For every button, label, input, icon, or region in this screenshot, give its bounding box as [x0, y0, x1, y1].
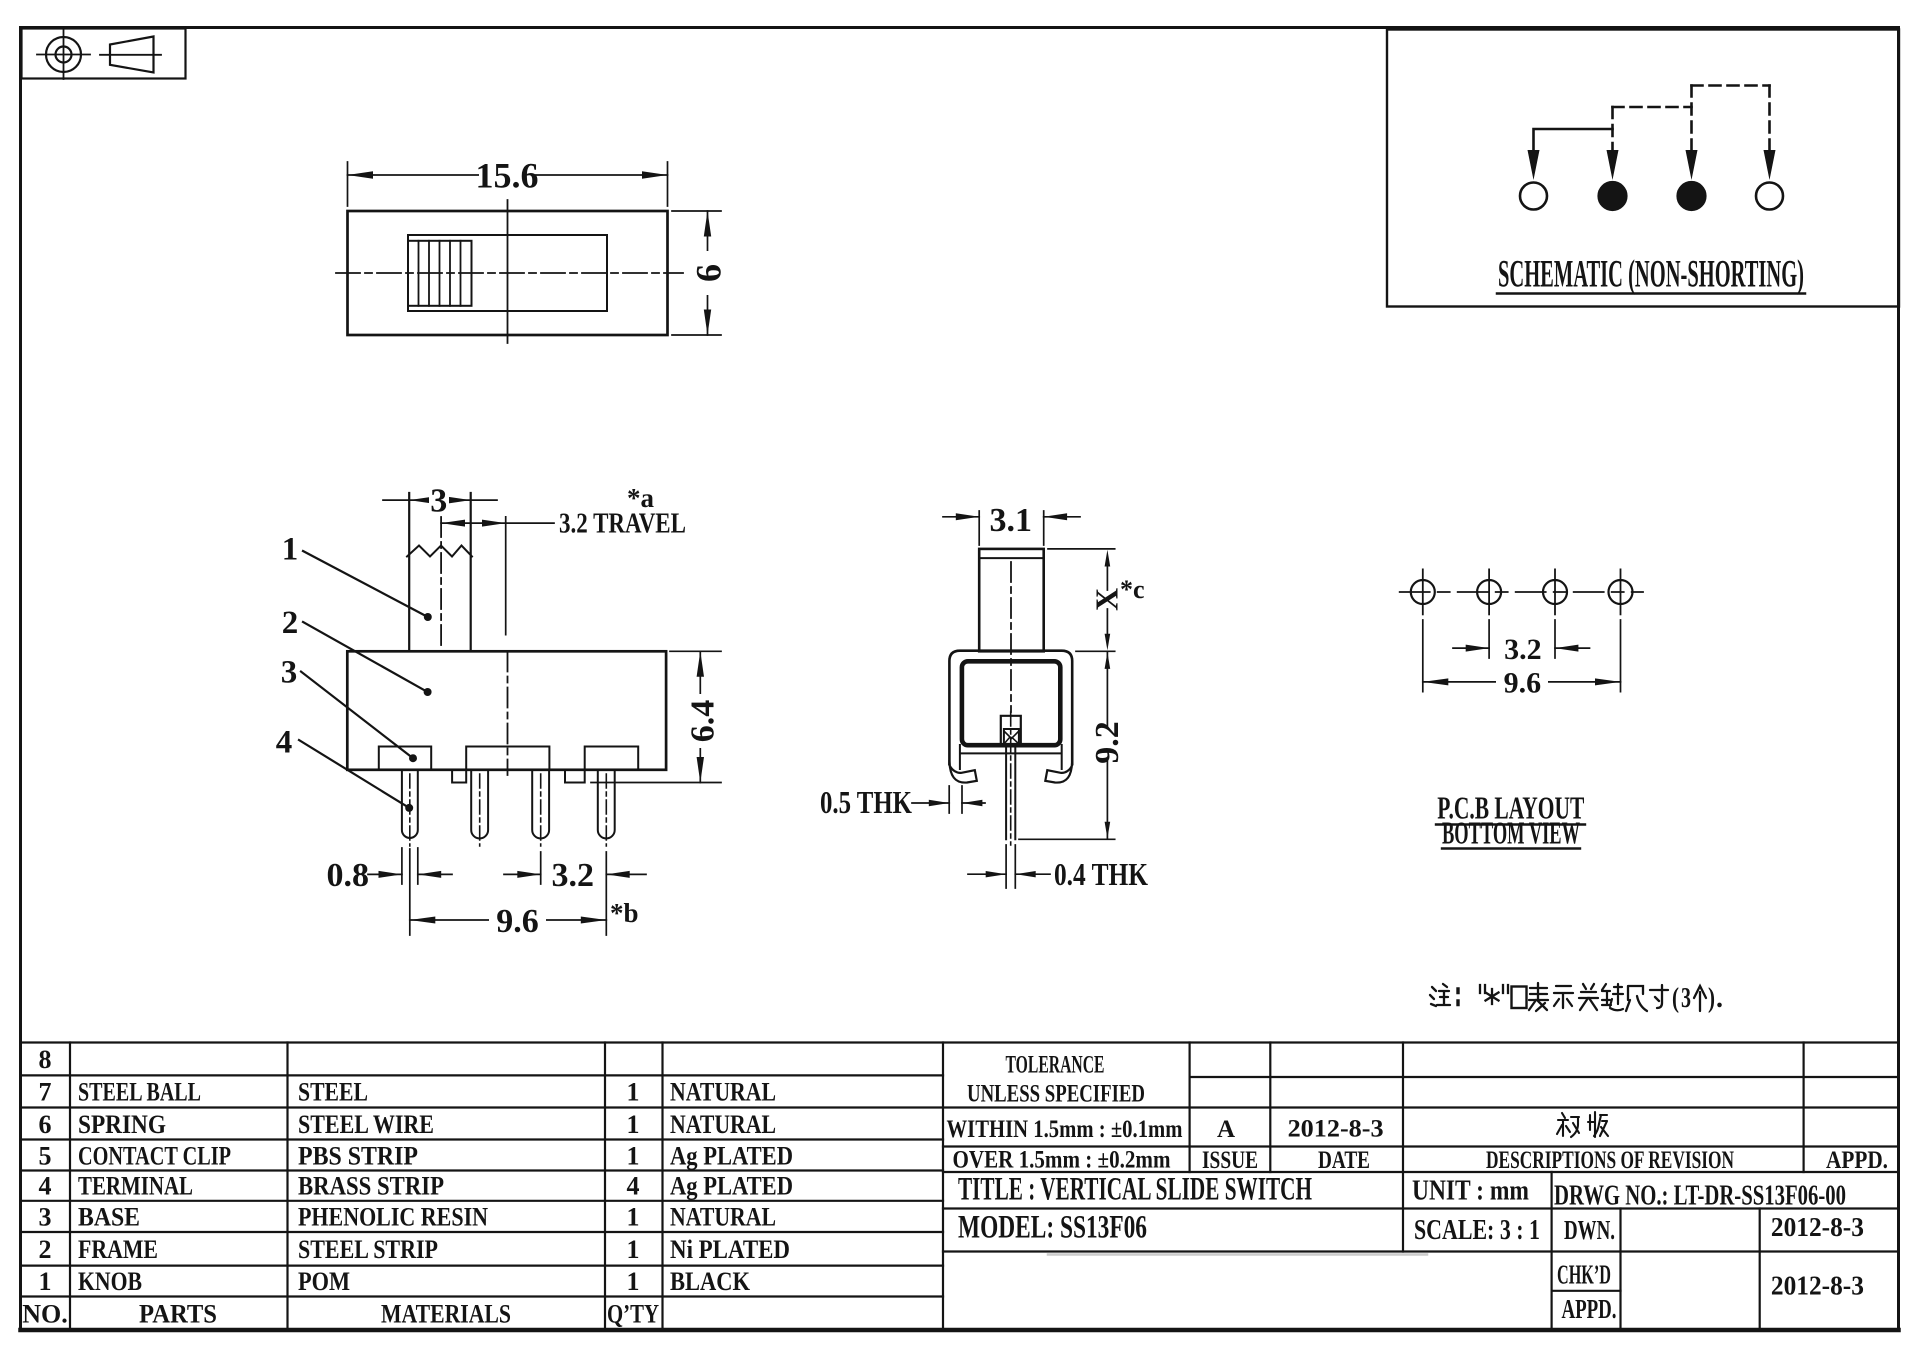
- schematic: arrow onto pin4: [1764, 150, 1776, 180]
- front view: knob stem center line: [440, 517, 442, 648]
- front view: body center line: [507, 652, 509, 776]
- svg-text:PARTS: PARTS: [139, 1300, 217, 1329]
- svg-text:STEEL WIRE: STEEL WIRE: [298, 1110, 434, 1139]
- svg-text:Ag PLATED: Ag PLATED: [670, 1172, 793, 1201]
- dimension 3 (knob width): [383, 483, 497, 520]
- svg-text:DESCRIPTIONS OF REVISION: DESCRIPTIONS OF REVISION: [1486, 1147, 1734, 1174]
- svg-text:0.5 THK: 0.5 THK: [820, 784, 912, 820]
- svg-text:8: 8: [39, 1045, 52, 1074]
- svg-text:NO.: NO.: [22, 1300, 68, 1329]
- svg-text:Ag PLATED: Ag PLATED: [670, 1142, 793, 1171]
- note: asterisk: [1486, 989, 1499, 1004]
- svg-text:2012-8-3: 2012-8-3: [1771, 1212, 1864, 1242]
- side view: pin section with hatch: [1004, 729, 1019, 746]
- note: 寸: [1650, 985, 1668, 1008]
- dimension 0.4 THK (pin thickness): [968, 845, 1148, 892]
- svg-text:1: 1: [627, 1203, 640, 1232]
- top view: vertical center line: [507, 200, 509, 343]
- leader 2 (frame): [282, 605, 432, 696]
- dimension 3.1 (stem depth): [943, 502, 1080, 545]
- svg-text:APPD.: APPD.: [1562, 1294, 1617, 1324]
- dimension 15.6 (top view width): [348, 156, 668, 207]
- pcb: hole 1: [1411, 569, 1435, 614]
- note: colon: [1456, 989, 1459, 1005]
- schematic box: [1387, 30, 1899, 307]
- svg-text:A: A: [1217, 1116, 1235, 1143]
- schematic: dashed wire pin2 vertical: [1611, 107, 1614, 151]
- note: 关: [1579, 984, 1598, 1010]
- schematic caption: [1497, 253, 1805, 296]
- svg-text:0.8: 0.8: [327, 857, 370, 894]
- schematic: dashed wire pin2-pin3 horizontal: [1613, 106, 1692, 109]
- svg-text:OVER 1.5mm : ±0.2mm: OVER 1.5mm : ±0.2mm: [953, 1147, 1171, 1174]
- svg-text:*c: *c: [1120, 575, 1145, 604]
- svg-text:9.6: 9.6: [1504, 667, 1542, 700]
- svg-text:2: 2: [282, 605, 299, 641]
- top view: knob slot opening: [408, 235, 607, 311]
- side view: frame bottom hook right: [1045, 760, 1072, 783]
- svg-text:6.4: 6.4: [685, 700, 722, 743]
- svg-text:3.2: 3.2: [552, 857, 595, 894]
- front view: base tab 2: [466, 747, 549, 770]
- schematic: dashed wire pin3-pin4 horizontal: [1692, 84, 1770, 87]
- leader 4 (terminal): [276, 725, 413, 812]
- svg-text:SCHEMATIC (NON-SHORTING): SCHEMATIC (NON-SHORTING): [1498, 253, 1804, 296]
- svg-text:2: 2: [39, 1235, 52, 1264]
- schematic: arrow onto pin3: [1686, 150, 1698, 180]
- svg-text:9.2: 9.2: [1089, 721, 1126, 764]
- front view: pin 4 center line: [605, 774, 607, 846]
- top view: knob with serrations: [408, 241, 472, 306]
- top view: horizontal center line: [336, 272, 683, 274]
- svg-text:WITHIN 1.5mm : ±0.1mm: WITHIN 1.5mm : ±0.1mm: [947, 1116, 1183, 1143]
- svg-text:UNLESS SPECIFIED: UNLESS SPECIFIED: [967, 1081, 1145, 1108]
- svg-text:2012-8-3: 2012-8-3: [1288, 1116, 1384, 1143]
- svg-text:POM: POM: [298, 1267, 350, 1296]
- svg-text:1: 1: [627, 1235, 640, 1264]
- svg-text:1: 1: [627, 1142, 640, 1171]
- side view: knob stem: [979, 549, 1043, 651]
- revision text: 版: [1588, 1112, 1608, 1137]
- table: horizontal rules: [21, 1043, 1899, 1331]
- front view: base tab 3: [585, 747, 639, 770]
- svg-text:1: 1: [39, 1267, 52, 1296]
- svg-text:STEEL STRIP: STEEL STRIP: [298, 1235, 438, 1264]
- svg-text:DATE: DATE: [1318, 1147, 1370, 1174]
- front view: pin 2 center line: [479, 774, 481, 846]
- front view: bottom standoff notch 2: [565, 770, 585, 783]
- schematic: solid wire from pin1 to pin2: [1534, 129, 1613, 151]
- side view: frame bottom hook left: [949, 760, 976, 783]
- schematic: dashed wire pin3 vertical: [1690, 86, 1693, 152]
- schematic: terminal 2 (filled): [1599, 182, 1627, 210]
- side view: base (thick outline): [962, 661, 1060, 745]
- side view: frame inner edges below base: [960, 745, 1062, 769]
- svg-text:SCALE: 3 : 1: SCALE: 3 : 1: [1414, 1214, 1540, 1246]
- svg-text:TITLE : VERTICAL SLIDE SWITCH: TITLE : VERTICAL SLIDE SWITCH: [958, 1172, 1312, 1208]
- front view: terminal pin 1: [402, 770, 418, 838]
- svg-text:9.6: 9.6: [496, 903, 539, 940]
- front view: knob break zigzag: [407, 546, 472, 557]
- schematic: dashed wire pin4 vertical: [1768, 86, 1771, 152]
- note: 示: [1554, 986, 1573, 1008]
- svg-text:BOTTOM VIEW: BOTTOM VIEW: [1442, 815, 1580, 851]
- svg-text:CONTACT CLIP: CONTACT CLIP: [78, 1142, 231, 1171]
- svg-text:1: 1: [627, 1110, 640, 1139]
- table: erased ghost line: [1048, 1253, 1427, 1256]
- svg-text:3: 3: [1681, 983, 1691, 1014]
- svg-text:1: 1: [627, 1078, 640, 1107]
- schematic: arrow onto pin1: [1528, 150, 1540, 180]
- front view: bottom standoff notch 1: [452, 770, 466, 783]
- svg-text:): ): [1708, 983, 1715, 1014]
- svg-text:NATURAL: NATURAL: [670, 1203, 776, 1232]
- svg-text:BASE: BASE: [78, 1203, 140, 1232]
- svg-text:NATURAL: NATURAL: [670, 1110, 776, 1139]
- svg-text:BRASS STRIP: BRASS STRIP: [298, 1172, 444, 1201]
- svg-text:BLACK: BLACK: [670, 1267, 751, 1296]
- pcb dimension 3.2: [1423, 620, 1621, 692]
- pcb: horizontal center line: [1400, 591, 1643, 593]
- front view: terminal pin 2: [471, 770, 488, 839]
- dimension 3.2 (pin pitch): [504, 852, 646, 935]
- svg-text:5: 5: [39, 1142, 52, 1171]
- svg-text:3: 3: [39, 1203, 52, 1232]
- svg-text:1: 1: [282, 532, 299, 568]
- side view: frame lower edge: [961, 752, 1061, 754]
- svg-text:15.6: 15.6: [476, 156, 539, 196]
- note: 尺: [1626, 986, 1647, 1011]
- projection symbol: cone side view: [100, 37, 161, 73]
- parts list text: [22, 1045, 793, 1329]
- pcb caption line 1: [1436, 790, 1585, 826]
- svg-text:PHENOLIC RESIN: PHENOLIC RESIN: [298, 1203, 488, 1232]
- side view: center line: [1010, 562, 1012, 712]
- schematic: terminal 3 (filled): [1678, 182, 1706, 210]
- svg-text:SPRING: SPRING: [78, 1110, 166, 1139]
- svg-text:DRWG NO.: LT-DR-SS13F06-00: DRWG NO.: LT-DR-SS13F06-00: [1554, 1180, 1846, 1212]
- svg-text:TERMINAL: TERMINAL: [78, 1172, 193, 1201]
- pcb caption line 2: [1442, 815, 1580, 851]
- projection symbol: circle view: [37, 30, 90, 79]
- svg-text:ISSUE: ISSUE: [1202, 1147, 1258, 1174]
- dimension 6.4 (body height): [591, 651, 722, 782]
- pcb dimension 9.6: [1423, 667, 1621, 700]
- tolerance block text: [947, 1052, 1889, 1175]
- svg-text:.: .: [1716, 983, 1723, 1014]
- side view: metal frame outline: [949, 651, 1072, 764]
- svg-text:MATERIALS: MATERIALS: [381, 1300, 511, 1329]
- svg-text:PBS STRIP: PBS STRIP: [298, 1142, 418, 1171]
- svg-text:(: (: [1672, 983, 1679, 1014]
- side view: terminal pin below frame: [1006, 747, 1015, 840]
- svg-text:Ni PLATED: Ni PLATED: [670, 1235, 790, 1264]
- pcb: hole 2: [1477, 569, 1501, 614]
- schematic: arrow onto pin2: [1607, 150, 1619, 180]
- top view: switch body outline: [348, 211, 668, 335]
- svg-text:*a: *a: [627, 483, 655, 513]
- first-angle projection symbol box: [22, 29, 186, 79]
- svg-text:4: 4: [276, 725, 293, 761]
- svg-text:FRAME: FRAME: [78, 1235, 158, 1264]
- svg-text:DWN.: DWN.: [1564, 1215, 1615, 1245]
- svg-text:1: 1: [627, 1267, 640, 1296]
- table: vertical rules: [70, 1043, 1804, 1331]
- svg-text:3.2 TRAVEL: 3.2 TRAVEL: [559, 508, 686, 540]
- front view: terminal pin 4: [598, 770, 615, 839]
- svg-text:3: 3: [430, 483, 447, 520]
- svg-text:NATURAL: NATURAL: [670, 1078, 776, 1107]
- dimension 9.6 (pin span): [410, 849, 639, 940]
- schematic: terminal 1 (open): [1520, 183, 1547, 210]
- front view: pin 1 center line: [409, 774, 411, 846]
- side view: pin center line: [1010, 712, 1012, 845]
- front view: body outline: [347, 651, 666, 770]
- svg-text:STEEL: STEEL: [298, 1078, 368, 1107]
- svg-text:6: 6: [689, 264, 729, 282]
- svg-text:4: 4: [39, 1172, 52, 1201]
- note: quote close: [1503, 985, 1508, 993]
- svg-text:7: 7: [39, 1078, 52, 1107]
- side view: contact pocket: [1001, 716, 1021, 746]
- leader 3 (base): [281, 655, 417, 763]
- svg-text:STEEL BALL: STEEL BALL: [78, 1078, 201, 1107]
- svg-text:TOLERANCE: TOLERANCE: [1006, 1052, 1105, 1079]
- note: (3个).: [1672, 983, 1723, 1014]
- dimension X *c (knob height): [1048, 549, 1145, 651]
- pcb: hole 4: [1609, 569, 1633, 614]
- dimension 9.2 (overall height): [1019, 652, 1126, 839]
- svg-text:APPD.: APPD.: [1826, 1147, 1888, 1174]
- svg-text:MODEL: SS13F06: MODEL: SS13F06: [958, 1210, 1147, 1246]
- schematic: terminal 4 (open): [1756, 183, 1783, 210]
- svg-text:UNIT : mm: UNIT : mm: [1412, 1175, 1529, 1207]
- front view: knob stem edges: [409, 493, 471, 651]
- svg-text:Q’TY: Q’TY: [607, 1300, 659, 1329]
- dimension 3.2 TRAVEL: [441, 483, 686, 635]
- dimension 0.8 (pin width): [327, 848, 452, 894]
- svg-text:CHK’D: CHK’D: [1557, 1260, 1611, 1290]
- svg-text:3.2: 3.2: [1504, 633, 1542, 666]
- note: 键: [1602, 984, 1623, 1010]
- svg-text:2012-8-3: 2012-8-3: [1771, 1271, 1864, 1301]
- svg-text:6: 6: [39, 1110, 52, 1139]
- leader 1 (knob): [282, 532, 432, 622]
- svg-text:KNOB: KNOB: [78, 1267, 142, 1296]
- front view: base tab 1: [379, 747, 431, 770]
- dimension 0.5 THK (frame thickness): [820, 784, 985, 820]
- note: open square: [1512, 987, 1527, 1009]
- svg-text:3: 3: [281, 655, 298, 691]
- svg-text:3.1: 3.1: [989, 502, 1032, 539]
- svg-text:4: 4: [627, 1172, 640, 1201]
- note: 表: [1529, 983, 1548, 1011]
- revision text: 初: [1557, 1113, 1579, 1137]
- note: quote open: [1480, 985, 1485, 993]
- front view: terminal pin 3: [532, 770, 549, 839]
- pcb: hole 3: [1543, 569, 1567, 614]
- front view: pin 3 center line: [540, 774, 542, 846]
- svg-text:0.4 THK: 0.4 THK: [1054, 856, 1148, 892]
- dimension 6 (top view height): [672, 211, 729, 335]
- note: 注: [1430, 984, 1450, 1006]
- svg-text:*b: *b: [610, 898, 639, 928]
- title block text: [958, 1172, 1864, 1325]
